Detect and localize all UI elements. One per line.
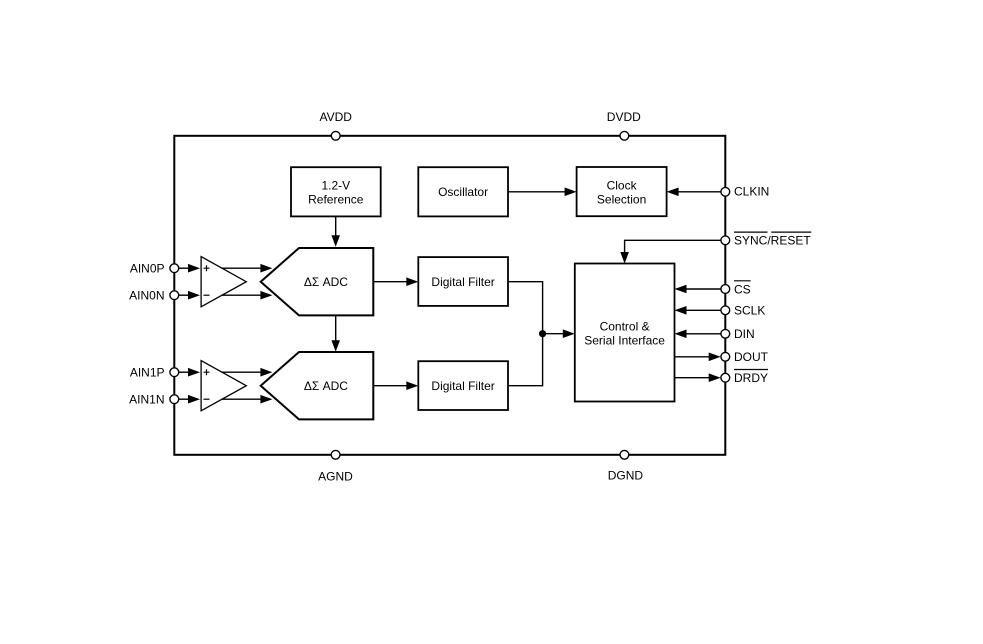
svg-text:Selection: Selection: [597, 192, 646, 206]
wire PGA1 out minus: [222, 291, 273, 300]
wire ADC2 to Digital Filter 2: [373, 381, 418, 390]
pin AIN0P: [130, 262, 179, 276]
pin SCLK: [721, 304, 765, 318]
wire PGA1 out plus: [222, 264, 273, 273]
ADC2 delta-sigma: [261, 352, 374, 419]
wire CS to Control: [675, 285, 722, 294]
svg-text:Oscillator: Oscillator: [438, 185, 488, 199]
block Control & Serial Interface: [575, 264, 675, 402]
svg-text:AIN0P: AIN0P: [130, 262, 165, 276]
pin AIN0N: [129, 289, 179, 303]
svg-text:DRDY: DRDY: [734, 371, 768, 385]
svg-text:DOUT: DOUT: [734, 350, 769, 364]
svg-text:AIN1P: AIN1P: [130, 366, 165, 380]
wire AIN1P input: [179, 368, 200, 377]
pin DRDY: [721, 370, 768, 386]
wire SYNC/RESET to Control top: [620, 240, 721, 263]
wire Control to DRDY: [675, 373, 721, 382]
block Digital Filter 1: [418, 257, 508, 306]
svg-text:AIN1N: AIN1N: [129, 393, 164, 407]
block 1.2-V Reference: [291, 167, 381, 216]
svg-text:SYNC/RESET: SYNC/RESET: [734, 234, 811, 248]
svg-text:Serial Interface: Serial Interface: [584, 334, 665, 348]
ADC1 delta-sigma: [261, 248, 374, 315]
wire AIN0N input: [179, 291, 200, 300]
pin DIN: [721, 327, 755, 341]
pin CLKIN: [721, 185, 769, 199]
pin DVDD: [607, 110, 641, 140]
wire AIN0P input: [179, 264, 200, 273]
svg-text:DVDD: DVDD: [607, 110, 641, 124]
wire SCLK to Control: [675, 306, 722, 315]
wire Digital Filter 2 output: [508, 334, 543, 386]
pin DGND: [608, 450, 644, 482]
block Digital Filter 2: [418, 361, 508, 410]
wire PGA2 out plus: [222, 368, 273, 377]
wire Control to DOUT: [675, 353, 721, 362]
block Clock Selection: [577, 167, 667, 216]
wire junction to Control: [543, 329, 575, 338]
svg-text:Digital Filter: Digital Filter: [431, 379, 494, 393]
svg-text:DIN: DIN: [734, 327, 755, 341]
wire ADC1 to ADC2: [331, 315, 340, 351]
wire DIN to Control: [675, 330, 722, 339]
svg-text:DGND: DGND: [608, 469, 644, 483]
wire PGA2 out minus: [222, 395, 273, 404]
op-amp PGA2: [201, 361, 246, 411]
pin AGND: [318, 450, 353, 483]
pin SYNC/RESET: [721, 232, 811, 248]
svg-text:Control &: Control &: [600, 320, 650, 334]
chip boundary: [174, 136, 725, 455]
pin AIN1P: [130, 366, 179, 380]
svg-text:1.2-V: 1.2-V: [321, 179, 350, 193]
svg-text:Digital Filter: Digital Filter: [431, 275, 494, 289]
pin AIN1N: [129, 393, 179, 407]
svg-text:Clock: Clock: [607, 178, 638, 192]
svg-text:SCLK: SCLK: [734, 304, 765, 318]
svg-text:AGND: AGND: [318, 469, 353, 483]
pin CS: [721, 281, 751, 297]
wire ADC1 to Digital Filter 1: [373, 277, 418, 286]
svg-text:CLKIN: CLKIN: [734, 185, 769, 199]
svg-text:CS: CS: [734, 282, 751, 296]
pin AVDD: [319, 110, 352, 140]
wire CLKIN to Clock Selection: [667, 188, 721, 197]
svg-text:ΔΣ ADC: ΔΣ ADC: [304, 275, 348, 289]
svg-text:AVDD: AVDD: [319, 110, 352, 124]
wire AIN1N input: [179, 395, 200, 404]
svg-text:Reference: Reference: [308, 193, 364, 207]
wire Digital Filter 1 output: [508, 282, 543, 334]
block Oscillator: [418, 167, 508, 216]
svg-text:ΔΣ ADC: ΔΣ ADC: [304, 379, 348, 393]
svg-text:AIN0N: AIN0N: [129, 289, 164, 303]
wire Oscillator to Clock Selection: [508, 188, 577, 197]
wire reference to ADC1: [331, 217, 340, 247]
junction node filters: [539, 330, 546, 337]
pin DOUT: [721, 350, 769, 364]
op-amp PGA1: [201, 257, 246, 307]
